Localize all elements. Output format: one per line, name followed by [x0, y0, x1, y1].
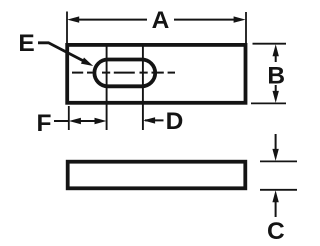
dim A line right segment with arrowhead: [174, 16, 246, 22]
slot right vertical centerline: [142, 45, 144, 130]
svg-text:C: C: [267, 218, 285, 245]
svg-text:F: F: [37, 110, 52, 137]
dim B line with arrowheads: [273, 44, 279, 103]
svg-text:E: E: [18, 30, 34, 57]
slot left vertical centerline: [106, 45, 108, 130]
plate top view outline: [67, 45, 245, 103]
svg-text:A: A: [152, 7, 170, 34]
svg-text:D: D: [166, 108, 184, 135]
leader E with arrowhead: [38, 43, 93, 66]
dim F double arrow: [69, 118, 107, 124]
dim F leader from label: [54, 120, 69, 122]
dim C top extension line: [260, 160, 297, 162]
dim C upper arrow pointing down: [272, 134, 278, 161]
dim F extension line (left edge of plate extended): [68, 106, 70, 130]
dim A line left segment with arrowhead: [67, 16, 147, 22]
dim C lower arrow pointing up: [272, 190, 278, 217]
dim B top extension line: [253, 43, 287, 45]
slot horizontal centerline: [72, 72, 175, 74]
dim C bottom extension line: [260, 189, 297, 191]
slot E (obround hole): [94, 60, 155, 87]
plate side view outline: [68, 162, 246, 189]
dim A left extension line: [66, 12, 68, 44]
dim B bottom extension line: [251, 102, 286, 104]
dim A right extension line: [245, 12, 247, 44]
dim D arrow: [143, 117, 163, 123]
svg-text:B: B: [267, 62, 285, 89]
